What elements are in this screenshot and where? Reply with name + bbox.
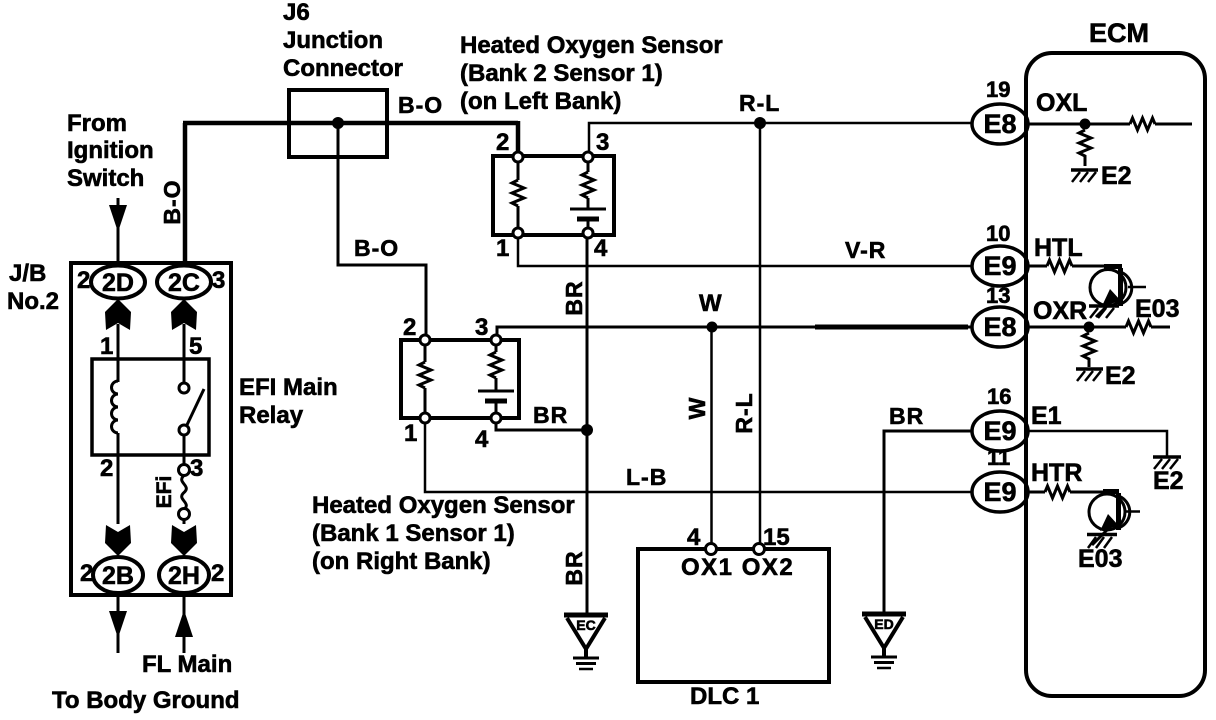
ground E03 (HTR) (1087, 535, 1117, 549)
label: E2 (OXL) (1101, 162, 1132, 190)
wire: bank2 pin3 riser to R-L run (589, 123, 973, 152)
bank1 pin 3 (475, 314, 501, 345)
bank2 pin 4 (583, 228, 608, 262)
node: OXR junction dot (1084, 322, 1095, 333)
svg-text:2: 2 (80, 560, 93, 587)
wire: bank1 pin1 to L-B run (425, 423, 973, 492)
svg-text:E9: E9 (983, 251, 1016, 281)
label: HTR (1031, 459, 1082, 487)
svg-text:(on Right Bank): (on Right Bank) (312, 548, 491, 575)
label: HTL (1034, 234, 1083, 262)
svg-text:15: 15 (763, 524, 790, 551)
label: BR (right) (889, 403, 924, 429)
J/B No.2 box (71, 263, 231, 595)
wire: bank2 pin1 to V-R run (518, 238, 973, 266)
bank1 pin 2 (403, 314, 430, 345)
wire: HTL to transistor (1072, 265, 1119, 268)
svg-text:4: 4 (594, 235, 608, 262)
label: J6 Junction Connector (283, 0, 403, 82)
pin 3 label of 2C (212, 267, 225, 294)
label: J/B No.2 (7, 260, 59, 315)
svg-text:3: 3 (596, 129, 609, 156)
wire: HTR internal (1028, 491, 1045, 494)
bank1 pin 4 (475, 413, 501, 453)
svg-text:Heated Oxygen Sensor: Heated Oxygen Sensor (460, 32, 723, 59)
svg-text:L-B: L-B (626, 464, 667, 490)
svg-text:R-L: R-L (739, 90, 780, 116)
label: Heated Oxygen Sensor (Bank 2 Sensor 1) (on Left Bank) (460, 32, 723, 115)
connector E9 pin 11 (972, 472, 1028, 512)
bank2 pin 2 (496, 129, 523, 162)
connector 2H oval (159, 557, 209, 593)
svg-text:E03: E03 (1135, 295, 1179, 323)
svg-text:4: 4 (475, 426, 489, 453)
svg-text:3: 3 (475, 314, 488, 341)
junction connector J6 box (289, 90, 387, 157)
DLC 1 box (638, 549, 829, 682)
ground ED (862, 614, 906, 668)
svg-text:V-R: V-R (845, 237, 886, 263)
svg-text:E03: E03 (1078, 545, 1122, 573)
wire: W vertical to DLC pin 4 (710, 327, 713, 549)
svg-text:BR: BR (533, 402, 568, 428)
svg-text:(Bank 2 Sensor 1): (Bank 2 Sensor 1) (460, 60, 663, 87)
svg-text:W: W (684, 397, 710, 420)
wire: OXR after resistor (1151, 326, 1170, 329)
svg-text:Connector: Connector (283, 55, 403, 82)
resistor OXL series (1130, 118, 1155, 130)
pin 2 label of 2B (80, 560, 93, 587)
label: E1 (1031, 402, 1062, 430)
EFi fuse (179, 465, 190, 525)
bank2 heater resistor (582, 162, 594, 209)
wire: W run thick segment (815, 325, 968, 330)
svg-text:2H: 2H (168, 562, 200, 590)
pin 11 label (987, 445, 1010, 470)
pin 10 label (986, 221, 1010, 246)
bank2 sensing resistor (512, 162, 524, 228)
node: R-L junction dot (754, 117, 766, 129)
label: W (vertical) (684, 397, 710, 420)
svg-text:10: 10 (986, 221, 1010, 246)
svg-text:EFI Main: EFI Main (239, 374, 338, 401)
label: DLC 1 (690, 683, 759, 710)
label: E03 (HTR) (1078, 545, 1122, 573)
bank1 sensing resistor (419, 345, 431, 413)
label: OXL (1036, 89, 1087, 117)
wire: FL Main into 2H with arrowhead (175, 595, 193, 653)
label: B-O (top) (398, 92, 443, 118)
wire: E1 to ground E2 (1028, 431, 1167, 456)
pin 2 label of 2D (77, 267, 90, 294)
transistor HTL driver (1090, 267, 1146, 318)
svg-text:1: 1 (100, 333, 113, 360)
svg-text:EC: EC (576, 617, 595, 633)
svg-text:E2: E2 (1101, 162, 1132, 190)
svg-text:Heated Oxygen Sensor: Heated Oxygen Sensor (312, 492, 575, 519)
bank1 battery cell (478, 391, 514, 413)
pin 13 label (986, 283, 1010, 308)
label: To Body Ground (52, 687, 240, 714)
wire: From Ignition Switch feed into 2D (117, 198, 120, 267)
label: E03 (HTL) (1135, 295, 1179, 323)
arrowhead on ignition feed (109, 205, 127, 232)
DLC pin 4 (687, 524, 717, 555)
label: BR (vertical upper) (561, 280, 587, 315)
label: R-L (vertical) (731, 392, 757, 433)
connector E8 pin 19 (972, 104, 1028, 144)
connector 2C oval (157, 266, 211, 299)
svg-text:2D: 2D (102, 269, 134, 297)
bank1 pin 1 (404, 413, 430, 447)
label: B-O (second) (354, 235, 399, 261)
svg-text:E9: E9 (983, 477, 1016, 507)
label: OXR (1033, 297, 1087, 325)
svg-text:2C: 2C (168, 269, 200, 297)
label: FL Main (142, 651, 232, 678)
svg-text:Ignition: Ignition (67, 137, 154, 164)
svg-text:HTL: HTL (1034, 234, 1083, 262)
svg-text:2: 2 (211, 560, 224, 587)
svg-text:B-O: B-O (398, 92, 443, 118)
arrow into 2B (down) (105, 525, 131, 556)
svg-text:2: 2 (100, 455, 113, 482)
svg-text:2: 2 (496, 129, 509, 156)
EFI main relay box (92, 359, 209, 455)
resistor HTR base (1045, 486, 1070, 498)
connector E9 pin 10 (972, 246, 1028, 286)
wire: R-L vertical to DLC pin 15 (759, 123, 762, 549)
transistor HTR driver (1089, 492, 1140, 546)
relay switch contact bottom (179, 425, 189, 435)
svg-text:1: 1 (496, 235, 509, 262)
svg-text:Switch: Switch (67, 165, 144, 192)
relay switch contact top (179, 383, 189, 393)
resistor OXL pulldown (1079, 130, 1091, 166)
svg-text:No.2: No.2 (7, 288, 59, 315)
node: OXL junction dot (1080, 119, 1091, 130)
label: B-O (vertical) (159, 179, 185, 224)
wire: coil to 2B (117, 433, 120, 524)
arrow into 2D (up) (105, 299, 131, 330)
svg-text:BR: BR (561, 550, 587, 585)
svg-text:13: 13 (986, 283, 1010, 308)
svg-text:19: 19 (986, 77, 1010, 102)
svg-text:OXL: OXL (1036, 89, 1087, 117)
svg-text:E8: E8 (983, 312, 1016, 342)
wire: B-O vertical from 2C up to top run (183, 123, 188, 266)
label: EFI Main Relay (239, 374, 338, 429)
svg-text:4: 4 (687, 524, 701, 551)
svg-text:J/B: J/B (9, 260, 46, 287)
svg-text:E1: E1 (1031, 402, 1062, 430)
wire: HTL internal (1028, 265, 1047, 268)
label: V-R (845, 237, 886, 263)
label: E2 (E1) (1153, 467, 1184, 495)
svg-text:E2: E2 (1153, 467, 1184, 495)
node: J6 junction dot (332, 117, 344, 129)
heated oxygen sensor bank1 box (401, 340, 519, 418)
label: E2 (OXR) (1105, 362, 1136, 390)
svg-text:B-O: B-O (159, 179, 185, 224)
connector E9 pin 16 (972, 411, 1028, 451)
bank2 battery cell (570, 209, 606, 228)
wire: switch to EFi fuse (183, 435, 186, 465)
heated oxygen sensor bank2 box (493, 156, 614, 235)
label: W (699, 290, 722, 317)
wire: top B-O horizontal run to Bank2 sensor pin 2 (183, 121, 518, 157)
svg-text:(on Left Bank): (on Left Bank) (460, 88, 621, 115)
pin 1 label relay (100, 333, 113, 360)
ground E2 (OXL) (1071, 170, 1098, 182)
wire: BR vertical from bank2 pin4 to EC ground (586, 238, 589, 614)
svg-text:1: 1 (404, 420, 417, 447)
svg-text:2: 2 (403, 314, 416, 341)
svg-text:B-O: B-O (354, 235, 399, 261)
pin 5 label relay (189, 333, 202, 360)
ground E2 (E1) (1153, 457, 1181, 469)
svg-text:EFi: EFi (153, 476, 176, 509)
svg-text:HTR: HTR (1031, 459, 1082, 487)
wire: B-O drop from J6 to Bank1 sensor pin 2 (338, 123, 426, 341)
label: BR (vertical lower) (561, 550, 587, 585)
label: From Ignition Switch (67, 110, 154, 192)
svg-text:(Bank 1 Sensor 1): (Bank 1 Sensor 1) (312, 520, 515, 547)
svg-text:OX1 OX2: OX1 OX2 (681, 554, 794, 581)
connector 2B oval (93, 557, 143, 593)
svg-text:ECM: ECM (1089, 18, 1149, 48)
svg-text:W: W (699, 290, 722, 317)
svg-text:OXR: OXR (1033, 297, 1087, 325)
arrow into 2H (down) (171, 525, 197, 556)
wire: OXL internal (1028, 123, 1130, 126)
ground E2 (OXR) (1076, 369, 1103, 381)
label: R-L (739, 90, 780, 116)
wire: HTR to transistor (1070, 491, 1112, 494)
svg-text:From: From (67, 110, 127, 137)
node: W junction dot (707, 322, 718, 333)
ECM box (1026, 53, 1205, 696)
bank2 pin 1 (496, 228, 523, 262)
wire: bank1 pin4 to BR junction (496, 423, 587, 430)
svg-text:2: 2 (77, 267, 90, 294)
svg-text:16: 16 (987, 384, 1011, 409)
bank1 heater resistor (490, 345, 502, 391)
label: BR (at bank1 pin4) (533, 402, 568, 428)
ground EC (564, 615, 608, 669)
pin 2 label of 2H (211, 560, 224, 587)
svg-text:BR: BR (561, 280, 587, 315)
svg-text:11: 11 (987, 445, 1010, 470)
relay coil (112, 381, 119, 433)
arrow into 2C (up) (171, 299, 197, 330)
svg-text:ED: ED (874, 616, 893, 632)
resistor HTL base (1047, 260, 1072, 272)
wire: 2C to relay switch (183, 324, 186, 383)
svg-text:3: 3 (190, 455, 203, 482)
svg-text:E9: E9 (983, 416, 1016, 446)
pin 3 label below relay (190, 455, 203, 482)
svg-text:DLC 1: DLC 1 (690, 683, 759, 710)
wire: OXL after resistor (1155, 123, 1192, 126)
pin 16 label (987, 384, 1011, 409)
bank2 pin 3 (583, 129, 609, 162)
svg-text:E8: E8 (983, 109, 1016, 139)
DLC pin 15 (754, 524, 790, 555)
svg-text:2B: 2B (102, 562, 134, 590)
svg-text:To Body Ground: To Body Ground (52, 687, 240, 714)
label: L-B (626, 464, 667, 490)
svg-text:J6: J6 (283, 0, 310, 26)
svg-text:Junction: Junction (283, 27, 383, 54)
pin 19 label (986, 77, 1010, 102)
label: OX1 OX2 (681, 554, 794, 581)
svg-text:Relay: Relay (239, 402, 304, 429)
svg-text:FL Main: FL Main (142, 651, 232, 678)
label: Heated Oxygen Sensor (Bank 1 Sensor 1) (on Right Bank) (312, 492, 575, 575)
resistor OXR series (1126, 321, 1151, 333)
svg-text:3: 3 (212, 267, 225, 294)
connector E8 pin 13 (972, 307, 1028, 347)
wire: OXR internal (1028, 326, 1126, 329)
pin 2 label below relay (100, 455, 113, 482)
label: ECM (1089, 18, 1149, 48)
wire: 2D to relay coil (117, 324, 120, 382)
label: EFi (vertical) (153, 476, 176, 509)
wire: bank1 pin3 riser to W run (497, 327, 973, 335)
svg-text:E2: E2 (1105, 362, 1136, 390)
svg-text:R-L: R-L (731, 392, 757, 433)
ground E03 (HTL) (1089, 306, 1119, 318)
svg-text:5: 5 (189, 333, 202, 360)
svg-text:BR: BR (889, 403, 924, 429)
wire: BR to E9 pin16 run (884, 431, 973, 612)
relay switch blade (186, 389, 204, 427)
wire: 2B to body ground with arrowhead (109, 595, 127, 653)
resistor OXR pulldown (1083, 333, 1095, 367)
node: BR junction dot (581, 424, 593, 436)
connector 2D oval (91, 266, 145, 299)
